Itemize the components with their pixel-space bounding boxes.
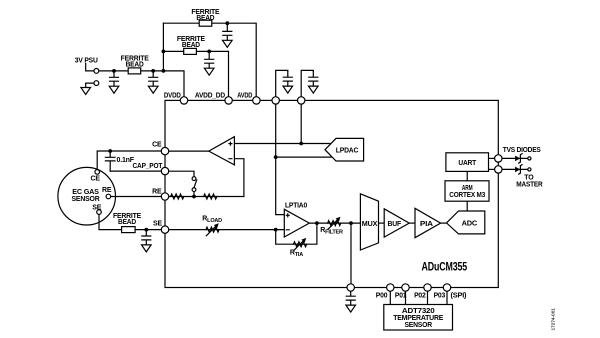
wire TVS row2: [502, 168, 528, 170]
svg-text:CORTEX M3: CORTEX M3: [449, 192, 485, 199]
wire switch to CAP_POT: [165, 171, 194, 177]
resistor RFILTER: [328, 221, 341, 226]
wire pin4 vertical to LPTIA plus: [276, 100, 285, 214]
junction node VZERO0 to LPDAC: [274, 155, 278, 159]
switch S1: [192, 177, 197, 197]
wire UART to right pin2: [489, 168, 499, 170]
MUX block: [360, 194, 378, 250]
pin UART TX: [495, 155, 502, 162]
pin UART RX: [495, 166, 502, 173]
svg-text:BEAD: BEAD: [182, 42, 200, 49]
svg-text:ADC: ADC: [462, 220, 478, 227]
junction node RE divider / switch: [192, 195, 196, 199]
wire LPTIA feedback loop: [276, 223, 317, 244]
pin AVDD_DD: [225, 97, 232, 104]
terminal circle TVS2: [528, 168, 531, 171]
svg-text:RE: RE: [102, 187, 112, 194]
svg-text:0.1nF: 0.1nF: [117, 157, 135, 164]
svg-text:UART: UART: [458, 160, 477, 167]
wire op-amp minus feedback: [234, 159, 244, 197]
capacitor C3 to ground: [223, 25, 233, 47]
pin CAP_POT: [161, 167, 168, 174]
wire SE pin to LPTIA minus: [165, 229, 284, 231]
wire PIA to ADC: [441, 222, 447, 224]
svg-text:RFILTER: RFILTER: [320, 227, 343, 235]
TVS diode D2: [515, 165, 522, 175]
ground PSU terminal: [81, 88, 91, 95]
svg-text:BUF: BUF: [388, 221, 402, 228]
wire ARM to ADC: [466, 201, 468, 211]
junction AVDD rail at C3: [225, 21, 229, 25]
svg-text:(SPI): (SPI): [451, 292, 467, 299]
svg-text:BEAD: BEAD: [126, 62, 144, 69]
capacitor C1 to ground: [109, 71, 119, 93]
wire bead branch vertical: [162, 23, 164, 71]
wire pin5 vertical: [300, 100, 302, 143]
pin P00: [387, 284, 394, 291]
svg-text:SE: SE: [92, 205, 101, 212]
wire sensor CE to chip CE: [97, 151, 165, 170]
wire BUF to PIA: [409, 222, 415, 224]
wire LPDAC lower to pin4: [276, 156, 332, 158]
svg-text:RLOAD: RLOAD: [202, 216, 222, 224]
svg-text:SE: SE: [153, 220, 162, 227]
pin 5: [298, 97, 305, 104]
resistor R1: [171, 194, 184, 199]
svg-text:RTIA: RTIA: [290, 250, 303, 258]
chip ADuCM355 outline: [165, 100, 498, 287]
svg-text:AVDD_DD: AVDD_DD: [195, 92, 225, 99]
svg-text:SENSOR: SENSOR: [72, 196, 100, 203]
pin AIN: [347, 284, 354, 291]
junction node CE at 0.1nF: [108, 149, 112, 153]
svg-text:P00: P00: [376, 292, 388, 299]
junction node VBIAS0 to LPDAC: [299, 142, 303, 146]
capacitor 0.1nF: [105, 151, 115, 171]
pin 4: [272, 97, 279, 104]
op-amp U2 LPTIA0: [284, 209, 309, 237]
capacitor C7 to ground: [142, 230, 152, 252]
wire PSU ground terminal: [86, 83, 94, 87]
pin CE: [161, 147, 168, 154]
capacitor C4 to ground: [204, 53, 214, 75]
wire P03 to ADT7320: [446, 291, 448, 304]
junction on 3V PSU rail at C1: [112, 69, 116, 73]
LPDAC block: [325, 138, 364, 161]
ADC block: [447, 211, 485, 234]
resistor R2: [204, 194, 217, 199]
PIA amplifier: [415, 208, 441, 237]
junction bead branch / AVDD_DD bead: [162, 50, 166, 54]
ferrite bead FB4 second: [184, 48, 197, 54]
capacitor C8 to ground: [346, 290, 356, 312]
resistor RTIA: [293, 242, 306, 247]
wire TVS row1: [502, 157, 528, 159]
svg-text:LPTIA0: LPTIA0: [285, 203, 307, 210]
svg-text:ADuCM355: ADuCM355: [422, 259, 468, 273]
capacitor C2 to ground: [148, 71, 158, 93]
svg-text:17274-001: 17274-001: [551, 308, 556, 331]
svg-text:LPDAC: LPDAC: [336, 147, 359, 154]
wire CE pin to op-amp: [165, 150, 209, 152]
svg-text:BEAD: BEAD: [118, 219, 136, 226]
junction node SE at C7: [144, 228, 148, 232]
svg-text:P03: P03: [434, 292, 446, 299]
wire RE resistor network: [165, 196, 244, 198]
wire cap to CAP_POT pin: [110, 170, 165, 172]
wire UART to right pin1: [489, 157, 499, 159]
wire UART to ARM: [466, 171, 468, 180]
svg-text:CAP_POT: CAP_POT: [133, 163, 164, 170]
sensor pin CE: [95, 170, 100, 175]
wire MUX to BUF: [379, 222, 385, 224]
svg-text:AVDD: AVDD: [237, 92, 252, 99]
svg-text:CE: CE: [91, 176, 101, 183]
pin AVDD: [253, 97, 260, 104]
wire ferrite bead top rail: [163, 23, 256, 100]
svg-text:DVDD: DVDD: [164, 92, 181, 99]
wire RFILTER node down to bottom pin: [350, 223, 352, 287]
svg-text:MUX: MUX: [362, 221, 378, 228]
sensor pin RE: [106, 194, 111, 199]
wire ferrite bead second rail: [163, 51, 228, 100]
pin SE: [161, 226, 168, 233]
BUF amplifier: [384, 209, 409, 237]
ferrite bead FB1: [128, 68, 141, 74]
resistor RLOAD: [206, 227, 219, 232]
ARM CORTEX M3 block: [445, 181, 489, 201]
junction LPTIA0 output / RTIA feedback: [315, 221, 319, 225]
3V PSU lead wire: [86, 64, 94, 71]
ADT7320 block: [384, 305, 453, 331]
3V PSU main wire: [99, 71, 184, 101]
terminal circle TVS1: [528, 157, 531, 160]
sensor pin SE: [97, 210, 102, 215]
junction on 3V PSU rail at C2: [151, 69, 155, 73]
wire P00 to ADT7320: [389, 291, 391, 304]
svg-text:P02: P02: [414, 292, 426, 299]
svg-text:RE: RE: [152, 188, 162, 195]
pin P03: [443, 284, 450, 291]
TVS diode D1: [515, 154, 522, 164]
junction AVDD_DD rail at C4: [207, 50, 211, 54]
svg-text:ARM: ARM: [462, 185, 473, 192]
wire P02 to ADT7320: [427, 291, 429, 304]
pin P01: [402, 284, 409, 291]
wire sensor SE down: [99, 214, 122, 229]
svg-text:MASTER: MASTER: [516, 181, 542, 188]
wire bracket cap pin5: [301, 70, 313, 100]
junction RFILTER output node to MUX: [349, 221, 353, 225]
wire bracket cap pin4: [276, 70, 288, 100]
EC gas sensor body: [58, 167, 116, 225]
svg-text:PIA: PIA: [420, 221, 433, 228]
wire bead to chip SE: [135, 229, 165, 231]
wire op-amp plus input rail: [234, 143, 331, 145]
svg-text:3V PSU: 3V PSU: [75, 57, 98, 64]
svg-text:P01: P01: [395, 292, 407, 299]
pin RE: [161, 193, 168, 200]
wire sensor RE to chip RE: [111, 196, 165, 198]
UART block: [446, 153, 489, 172]
capacitor C6 to ground: [309, 71, 319, 93]
wire LPTIA output: [309, 222, 360, 224]
svg-text:EC GAS: EC GAS: [72, 189, 99, 196]
junction node DVDD rail / bead branch: [162, 69, 166, 73]
terminal circle PSU ground: [94, 81, 99, 86]
pin P02: [424, 284, 431, 291]
svg-text:CE: CE: [152, 141, 162, 148]
op-amp U1 potentiostat: [209, 137, 235, 165]
ferrite bead FB3: [122, 227, 136, 233]
svg-text:TVS DIODES: TVS DIODES: [503, 147, 541, 154]
junction LPTIA0 inverting input: [274, 228, 278, 232]
wire P01 to ADT7320: [405, 291, 407, 304]
pin DVDD: [180, 97, 187, 104]
capacitor C5 to ground: [283, 71, 293, 93]
svg-text:SENSOR: SENSOR: [404, 322, 432, 329]
svg-text:BEAD: BEAD: [196, 15, 214, 22]
ferrite bead FB2 top: [199, 20, 212, 26]
terminal circle 3V PSU: [94, 69, 99, 74]
